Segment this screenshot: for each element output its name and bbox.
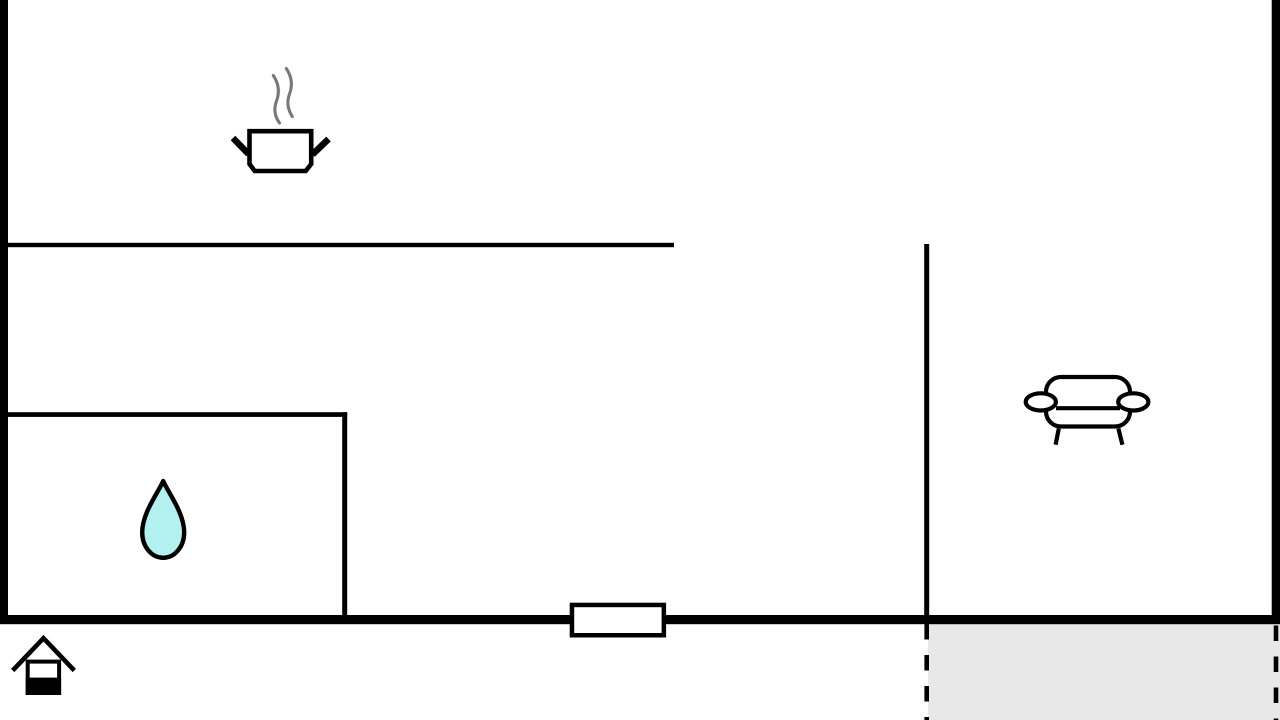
kitchen pot right handle (313, 139, 329, 155)
bathroom right wall (342, 412, 347, 624)
entrance house icon roof (13, 638, 75, 670)
entrance house icon filled base (26, 678, 61, 695)
bathroom top wall (0, 412, 347, 417)
kitchen pot body (250, 131, 312, 171)
steam wavy line right (286, 69, 292, 117)
sofa left armrest ellipse (1026, 393, 1056, 410)
terrace right dashed boundary (1274, 626, 1279, 720)
sofa left leg (1056, 429, 1059, 445)
terrace gray area (928, 624, 1280, 720)
right exterior wall (1272, 0, 1280, 624)
window symbol on bottom wall (572, 605, 664, 635)
sofa seat line (1056, 406, 1120, 410)
entrance house icon body (28, 662, 59, 693)
bathroom water drop (142, 481, 184, 558)
interior horizontal wall kitchen (0, 243, 674, 247)
interior vertical wall living room (924, 244, 929, 624)
sofa right armrest ellipse (1118, 393, 1148, 410)
bottom exterior wall (0, 615, 1280, 624)
sofa body (1046, 377, 1130, 427)
terrace left dashed boundary (924, 624, 929, 720)
steam wavy line left (273, 76, 279, 124)
sofa right leg (1118, 429, 1122, 445)
left exterior wall (0, 0, 8, 624)
kitchen pot left handle (233, 138, 249, 154)
